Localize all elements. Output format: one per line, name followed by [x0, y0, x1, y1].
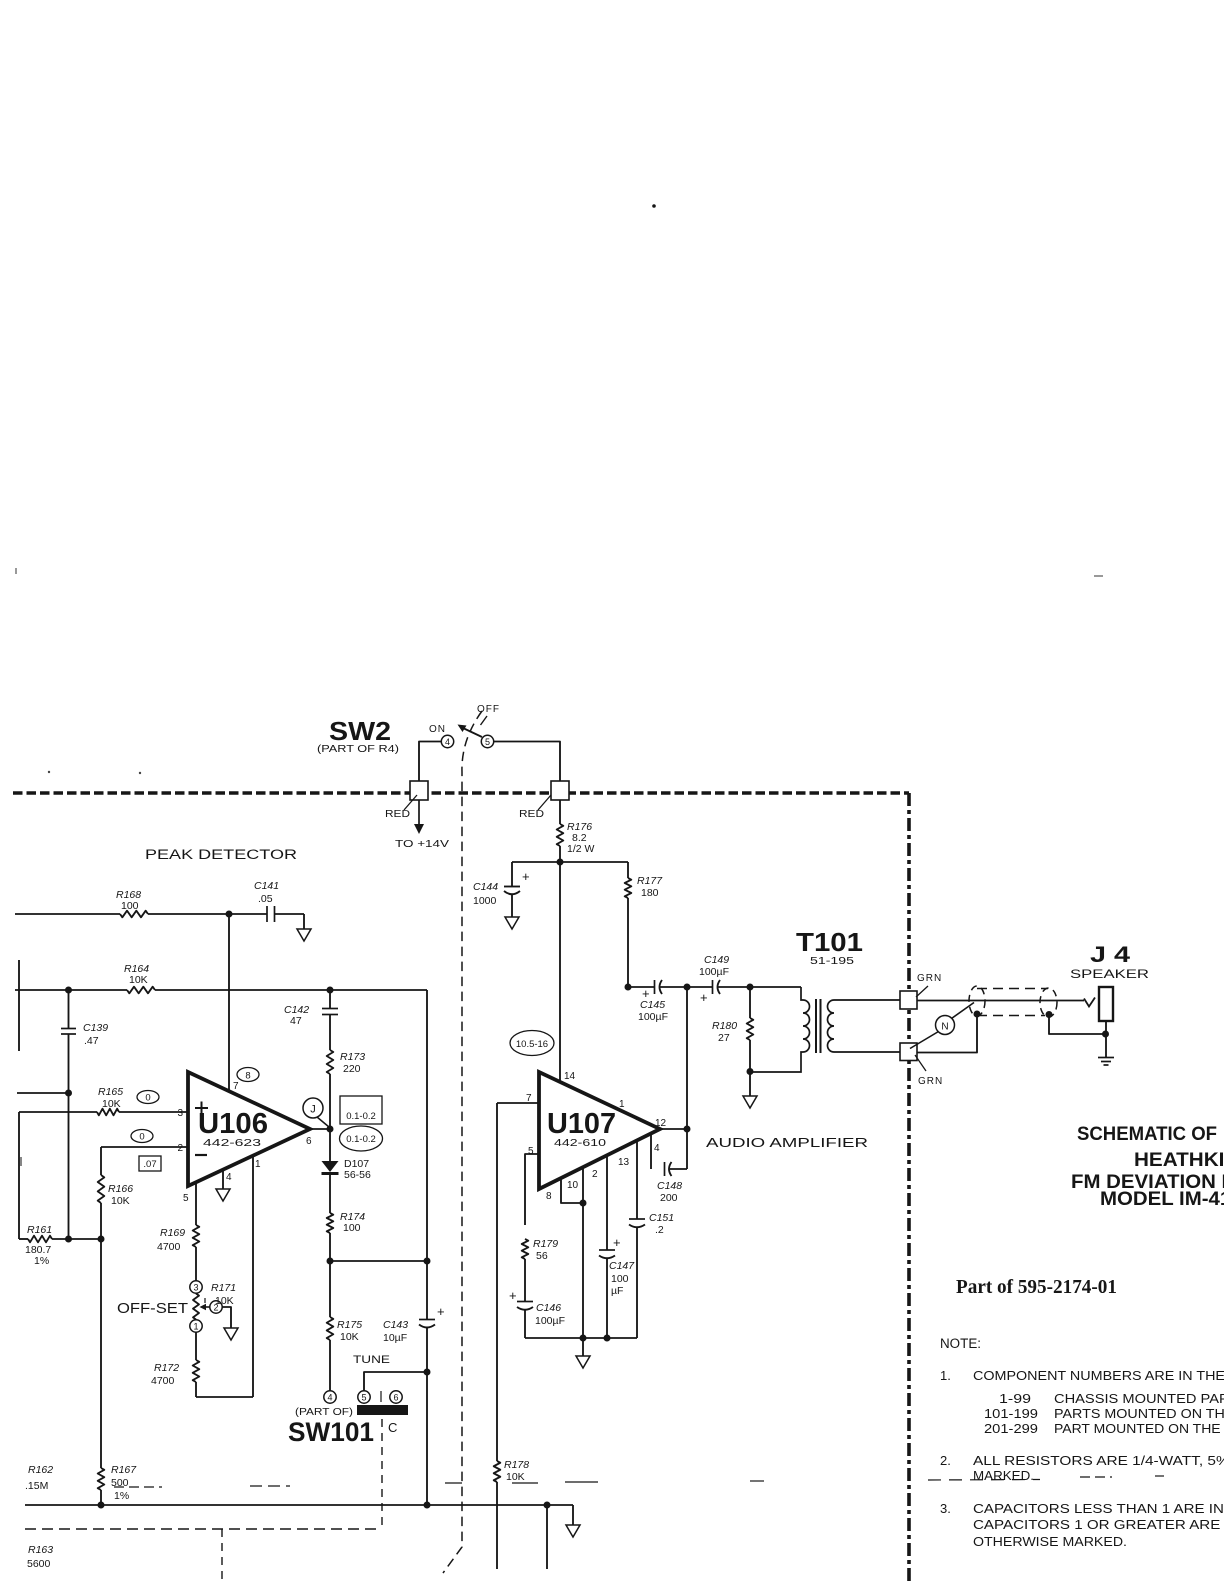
- svg-text:CHASSIS MOUNTED PARTS: CHASSIS MOUNTED PARTS: [1054, 1391, 1224, 1406]
- resistor R165: [19, 1111, 97, 1113]
- svg-text:4700: 4700: [157, 1241, 181, 1253]
- wire rail horizontal: [512, 861, 628, 863]
- svg-text:1%: 1%: [114, 1490, 129, 1502]
- svg-text:J: J: [310, 1104, 316, 1116]
- wire jack sleeve down: [1105, 1021, 1107, 1057]
- svg-text:442-610: 442-610: [554, 1137, 606, 1149]
- wire ground branch down: [546, 1505, 548, 1569]
- svg-text:R180: R180: [712, 1020, 737, 1032]
- switch SW101 bar: [357, 1405, 408, 1415]
- svg-text:13: 13: [618, 1157, 630, 1168]
- svg-text:12: 12: [655, 1118, 667, 1129]
- ground bottom rail: [566, 1525, 580, 1537]
- svg-text:GRN: GRN: [917, 973, 942, 984]
- svg-text:0: 0: [139, 1132, 144, 1143]
- svg-text:.07: .07: [143, 1159, 156, 1170]
- resistor R176: [559, 800, 561, 824]
- wire shield to jack sleeve: [1049, 1015, 1106, 1035]
- wire bottom rail ground stem: [572, 1505, 574, 1525]
- svg-text:4: 4: [445, 737, 450, 747]
- svg-text:1: 1: [255, 1159, 261, 1170]
- wire SW101 C dashed: [381, 1419, 383, 1529]
- svg-text:100µF: 100µF: [535, 1315, 565, 1327]
- wire output to C145 node: [686, 987, 688, 1129]
- svg-text:10µF: 10µF: [383, 1332, 407, 1344]
- wire U106 pin5 down: [195, 1182, 197, 1225]
- svg-text:SW2: SW2: [329, 716, 391, 746]
- svg-text:3.: 3.: [940, 1501, 951, 1516]
- resistor R178: [494, 1461, 501, 1482]
- op-amp U106 plus sign: [195, 1107, 208, 1109]
- svg-text:OFF: OFF: [477, 704, 500, 715]
- svg-text:10K: 10K: [129, 974, 148, 986]
- svg-text:180: 180: [641, 887, 659, 899]
- svg-text:1000: 1000: [473, 895, 497, 907]
- svg-text:56: 56: [536, 1250, 548, 1262]
- connector square RED left: [410, 781, 428, 800]
- capacitor C147: [599, 1249, 615, 1251]
- svg-text:R161: R161: [27, 1224, 52, 1236]
- svg-text:10K: 10K: [340, 1331, 359, 1343]
- node R161/R166 junction: [98, 1236, 105, 1243]
- svg-text:N: N: [941, 1022, 948, 1033]
- resistor R161: [19, 1238, 28, 1240]
- wire U107 pin5: [525, 1154, 539, 1225]
- svg-text:SCHEMATIC OF: SCHEMATIC OF: [1077, 1124, 1217, 1145]
- resistor R167: [98, 1468, 105, 1490]
- node TUNE junction: [424, 1369, 431, 1376]
- svg-text:.2: .2: [655, 1224, 664, 1236]
- svg-text:C147: C147: [609, 1260, 635, 1272]
- wire dashed bottom boundary: [25, 1528, 382, 1530]
- svg-text:Part of 595-2174-01: Part of 595-2174-01: [956, 1276, 1117, 1298]
- wire C139 to R161: [68, 1093, 70, 1239]
- svg-text:C143: C143: [383, 1319, 408, 1331]
- svg-text:10: 10: [567, 1180, 579, 1191]
- svg-text:2: 2: [592, 1169, 598, 1180]
- capacitor C148 loop: [650, 1133, 652, 1169]
- svg-text:100: 100: [121, 900, 139, 912]
- capacitor C143: [419, 1319, 435, 1321]
- svg-text:14: 14: [564, 1071, 576, 1082]
- svg-text:8: 8: [546, 1191, 552, 1202]
- connector square RED right: [551, 781, 569, 800]
- svg-text:4: 4: [654, 1143, 660, 1154]
- callout oval 0 upper: [137, 1091, 159, 1104]
- callout oval 0 lower: [131, 1130, 153, 1143]
- node bottom rail ground branch: [544, 1502, 551, 1509]
- svg-text:CAPACITORS 1 OR GREATER ARE IN: CAPACITORS 1 OR GREATER ARE IN P: [973, 1517, 1224, 1532]
- resistor R168: [15, 913, 120, 915]
- svg-text:ON: ON: [429, 724, 446, 735]
- capacitor C146: [517, 1301, 533, 1303]
- node C145 left junction: [625, 984, 632, 991]
- resistor R169: [193, 1225, 200, 1247]
- svg-text:MARKED.: MARKED.: [973, 1468, 1034, 1483]
- node ground rail pin10: [580, 1335, 587, 1342]
- svg-text:RED: RED: [519, 809, 544, 820]
- svg-text:10.5-16: 10.5-16: [516, 1039, 548, 1050]
- switch SW2 wiper arrow: [464, 729, 482, 738]
- wire TUNE link: [364, 1372, 427, 1391]
- svg-text:U107: U107: [547, 1108, 616, 1140]
- svg-text:GRN: GRN: [918, 1076, 943, 1087]
- svg-text:200: 200: [660, 1192, 678, 1204]
- svg-text:2: 2: [177, 1143, 183, 1154]
- cable shield left ellipse: [969, 986, 985, 1016]
- op-amp U107: [539, 1072, 660, 1189]
- capacitor C142: [329, 990, 331, 1008]
- wire U107 pin7: [497, 1102, 539, 1104]
- svg-text:RED: RED: [385, 809, 410, 820]
- wire right branch vertical: [426, 990, 428, 1319]
- svg-text:1/2 W: 1/2 W: [567, 843, 595, 855]
- svg-text:5600: 5600: [27, 1558, 51, 1570]
- callout circle N: [936, 1016, 955, 1035]
- svg-text:R165: R165: [98, 1086, 123, 1098]
- svg-text:10K: 10K: [506, 1471, 525, 1483]
- label GRN top: [916, 986, 928, 997]
- svg-text:µF: µF: [611, 1285, 623, 1297]
- wire U107 pin13 leg: [636, 1140, 638, 1219]
- svg-text:R172: R172: [154, 1362, 179, 1374]
- capacitor C145: [628, 986, 655, 988]
- svg-text:4: 4: [226, 1172, 232, 1183]
- svg-text:NOTE:: NOTE:: [940, 1336, 981, 1351]
- callout box .07: [139, 1156, 161, 1171]
- svg-text:201-299: 201-299: [984, 1421, 1038, 1436]
- svg-text:1: 1: [619, 1099, 625, 1110]
- svg-text:R169: R169: [160, 1227, 185, 1239]
- diode D107: [329, 1129, 331, 1161]
- wire U106 pin1 down: [252, 1156, 254, 1397]
- node R180 bottom junction: [747, 1068, 754, 1075]
- potentiometer R171 terminal 2: [210, 1301, 222, 1313]
- speck marks: [652, 204, 656, 208]
- svg-text:0.1-0.2: 0.1-0.2: [346, 1134, 376, 1145]
- svg-text:0: 0: [145, 1093, 150, 1104]
- svg-text:R166: R166: [108, 1183, 133, 1195]
- svg-text:R163: R163: [28, 1544, 53, 1556]
- jack J4 tip contact: [1084, 998, 1095, 1007]
- label RED left pointer: [404, 795, 417, 810]
- svg-text:C148: C148: [657, 1180, 682, 1192]
- svg-text:HEATHKIT: HEATHKIT: [1134, 1150, 1224, 1171]
- svg-text:1%: 1%: [34, 1255, 49, 1267]
- wire U107 pin10 leg: [582, 1167, 584, 1338]
- svg-text:27: 27: [718, 1032, 730, 1044]
- svg-text:.47: .47: [84, 1035, 99, 1047]
- switch SW2 contact 5: [481, 735, 493, 747]
- svg-text:220: 220: [343, 1063, 361, 1075]
- svg-text:100µF: 100µF: [699, 966, 729, 978]
- node C149/R180 junction: [747, 984, 754, 991]
- resistor R179: [522, 1239, 529, 1259]
- wire speaker hot: [917, 1000, 1084, 1002]
- ground C144: [505, 917, 519, 929]
- node R174 bottom junction: [327, 1258, 334, 1265]
- resistor R173: [327, 1050, 334, 1074]
- svg-text:C139: C139: [83, 1022, 108, 1034]
- transformer T101 secondary: [828, 1000, 901, 1052]
- ground R180: [743, 1096, 757, 1108]
- svg-text:C151: C151: [649, 1212, 674, 1224]
- node C143 branch junction: [424, 1258, 431, 1265]
- svg-text:+: +: [613, 1235, 621, 1250]
- svg-text:5: 5: [361, 1392, 366, 1402]
- callout oval 10.5-16: [510, 1031, 554, 1056]
- wire U106 pin7 feed: [228, 914, 230, 1091]
- svg-text:100: 100: [343, 1222, 361, 1234]
- svg-text:47: 47: [290, 1015, 302, 1027]
- node U106 output junction: [327, 1126, 334, 1133]
- svg-text:PARTS MOUNTED ON THE CIR: PARTS MOUNTED ON THE CIR: [1054, 1406, 1224, 1421]
- svg-text:10K: 10K: [215, 1295, 234, 1307]
- svg-text:.15M: .15M: [25, 1480, 48, 1492]
- wire circuit-board boundary dashed vertical: [443, 711, 482, 1573]
- wire U107 pin8 stub: [561, 1178, 583, 1203]
- potentiometer R171 terminal 3: [190, 1281, 202, 1293]
- svg-text:1-99: 1-99: [999, 1391, 1031, 1406]
- svg-text:C149: C149: [704, 954, 729, 966]
- node jack sleeve junction: [1102, 1031, 1109, 1038]
- switch SW101 contact 5: [358, 1391, 370, 1403]
- callout circle J: [303, 1098, 323, 1118]
- wire R165 down leg: [18, 1112, 20, 1239]
- svg-text:U106: U106: [198, 1108, 268, 1140]
- capacitor C139: [68, 990, 70, 1028]
- wire arrow TO +14V: [418, 800, 420, 826]
- label RED right pointer: [538, 795, 551, 810]
- jack J4 body: [1099, 987, 1113, 1021]
- svg-text:3: 3: [193, 1282, 198, 1292]
- svg-text:AUDIO AMPLIFIER: AUDIO AMPLIFIER: [706, 1135, 868, 1150]
- ground chassis J4: [1098, 1057, 1114, 1059]
- node C142 top junction: [327, 987, 334, 994]
- op-amp U106: [188, 1072, 310, 1186]
- resistor R172: [195, 1332, 197, 1360]
- svg-text:R167: R167: [111, 1464, 137, 1476]
- wire chassis boundary dashed horizontal: [13, 791, 909, 795]
- node R168/C141 junction: [226, 911, 233, 918]
- resistor R175: [329, 1261, 331, 1317]
- svg-text:R162: R162: [28, 1464, 53, 1476]
- svg-text:56-56: 56-56: [344, 1169, 371, 1181]
- svg-text:R173: R173: [340, 1051, 365, 1063]
- wire U106 output: [310, 1128, 330, 1130]
- potentiometer R171 element: [193, 1294, 199, 1320]
- node +14V rail junction: [557, 859, 564, 866]
- wire U106 pin2: [101, 1146, 188, 1148]
- svg-text:442-623: 442-623: [203, 1137, 261, 1149]
- svg-text:100: 100: [611, 1273, 629, 1285]
- wire ground rail stem: [582, 1338, 584, 1356]
- callout box 0.1-0.2: [340, 1096, 382, 1124]
- wire R180 ground stem: [749, 1072, 751, 1097]
- svg-text:+: +: [700, 990, 708, 1005]
- node shield left: [974, 1011, 981, 1018]
- capacitor C141: [266, 906, 268, 922]
- potentiometer R171 terminal 1: [190, 1320, 202, 1332]
- svg-text:PART MOUNTED ON THE MET: PART MOUNTED ON THE MET: [1054, 1421, 1224, 1436]
- wire secondary bottom: [917, 1014, 977, 1053]
- svg-text:5: 5: [183, 1193, 189, 1204]
- svg-text:C145: C145: [640, 999, 665, 1011]
- svg-text:51-195: 51-195: [810, 956, 855, 967]
- wire R172 to pin1 leg: [196, 1396, 253, 1398]
- switch SW101 contact 4: [324, 1391, 336, 1403]
- node R161/C139 junction: [65, 1236, 72, 1243]
- svg-text:ALL RESISTORS ARE 1/4-WATT, 5%: ALL RESISTORS ARE 1/4-WATT, 5% UNLE: [973, 1453, 1224, 1468]
- svg-text:+: +: [509, 1288, 517, 1303]
- svg-text:R175: R175: [337, 1319, 362, 1331]
- svg-text:C144: C144: [473, 881, 498, 893]
- svg-text:3: 3: [177, 1108, 183, 1119]
- callout oval 0.1-0.2: [340, 1126, 383, 1151]
- svg-text:SPEAKER: SPEAKER: [1070, 967, 1149, 981]
- wire U107 ground rail: [525, 1337, 637, 1339]
- svg-text:R179: R179: [533, 1238, 558, 1250]
- label GRN bottom: [915, 1055, 926, 1071]
- wire contact5 to connector: [494, 742, 560, 782]
- svg-text:100µF: 100µF: [638, 1011, 668, 1023]
- capacitor C144: [511, 862, 513, 886]
- wire U107 pin7 leg: [496, 1103, 498, 1461]
- svg-text:(PART OF R4): (PART OF R4): [317, 743, 399, 755]
- wire U107 output: [660, 1128, 687, 1130]
- svg-text:OFF-SET: OFF-SET: [117, 1300, 188, 1317]
- resistor R164: [15, 989, 127, 991]
- ground U106 pin4: [216, 1189, 230, 1201]
- cable shield right ellipse: [1040, 988, 1057, 1017]
- wire left stub: [18, 960, 20, 1051]
- switch SW2 contact 4: [441, 735, 453, 747]
- svg-text:J 4: J 4: [1090, 942, 1131, 967]
- wire faint dashed trace: [114, 1486, 162, 1488]
- node pin8/pin10 junction: [580, 1200, 587, 1207]
- node U107 output junction: [684, 1126, 691, 1133]
- node ground rail pin2: [604, 1335, 611, 1342]
- cable outline dashed top: [977, 988, 1048, 990]
- node C139 top junction: [65, 987, 72, 994]
- resistor R174: [327, 1213, 334, 1233]
- node bottom rail R167: [98, 1502, 105, 1509]
- svg-text:101-199: 101-199: [984, 1406, 1038, 1421]
- ground C141: [297, 929, 311, 941]
- node C139 bottom junction: [65, 1090, 72, 1097]
- capacitor C151: [629, 1218, 645, 1220]
- svg-text:10K: 10K: [102, 1098, 121, 1110]
- svg-text:R178: R178: [504, 1459, 529, 1471]
- svg-text:+: +: [522, 869, 530, 884]
- svg-text:0.1-0.2: 0.1-0.2: [346, 1111, 376, 1122]
- svg-text:R177: R177: [637, 875, 663, 887]
- svg-text:1: 1: [193, 1321, 198, 1331]
- op-amp U106 minus sign: [195, 1154, 207, 1156]
- svg-text:OTHERWISE MARKED.: OTHERWISE MARKED.: [973, 1534, 1127, 1549]
- svg-text:T101: T101: [796, 927, 863, 957]
- wire wiper to ground: [222, 1307, 231, 1328]
- svg-text:C: C: [388, 1420, 397, 1435]
- svg-text:TUNE: TUNE: [353, 1354, 390, 1366]
- resistor R180: [749, 987, 751, 1018]
- wire U107 pin2 leg: [606, 1155, 608, 1250]
- pin 4 ground stem: [222, 1170, 224, 1189]
- connector square GRN top: [900, 991, 917, 1009]
- node C145/C149 junction: [684, 984, 691, 991]
- svg-text:6: 6: [393, 1392, 398, 1402]
- ground R171 wiper: [224, 1328, 238, 1340]
- svg-text:C146: C146: [536, 1302, 561, 1314]
- callout oval 8: [237, 1068, 259, 1082]
- transformer T101 primary: [750, 986, 801, 988]
- svg-text:7: 7: [233, 1081, 239, 1092]
- svg-text:SW101: SW101: [288, 1417, 374, 1447]
- svg-text:TO +14V: TO +14V: [395, 838, 449, 850]
- svg-text:1.: 1.: [940, 1368, 951, 1383]
- wire R174 to C143 branch: [330, 1260, 427, 1262]
- svg-text:COMPONENT NUMBERS ARE IN THE: COMPONENT NUMBERS ARE IN THE: [973, 1368, 1224, 1383]
- wire chassis boundary dashed vertical: [907, 793, 911, 1584]
- wire U107 pin14 feed: [559, 862, 561, 1082]
- capacitor C149: [687, 986, 713, 988]
- svg-text:8: 8: [245, 1071, 250, 1082]
- wire contact4 to connector: [419, 742, 441, 782]
- svg-text:4700: 4700: [151, 1375, 175, 1387]
- connector square GRN bottom: [900, 1043, 917, 1061]
- svg-text:2.: 2.: [940, 1453, 951, 1468]
- svg-text:C141: C141: [254, 880, 279, 892]
- svg-text:5: 5: [528, 1146, 534, 1157]
- cable outline dashed bottom: [977, 1015, 1045, 1017]
- potentiometer R171 wiper: [203, 1306, 210, 1308]
- wire stub left of C139: [17, 1092, 69, 1094]
- resistor R166: [100, 1147, 102, 1175]
- node bottom rail C143: [424, 1502, 431, 1509]
- wire dashed bottom left drop: [221, 1529, 223, 1584]
- svg-text:+: +: [437, 1304, 445, 1319]
- svg-text:10K: 10K: [111, 1195, 130, 1207]
- svg-text:MODEL IM-4102: MODEL IM-4102: [1100, 1189, 1224, 1210]
- svg-text:.05: .05: [258, 893, 273, 905]
- svg-text:6: 6: [306, 1136, 312, 1147]
- svg-text:4: 4: [327, 1392, 332, 1402]
- svg-text:5: 5: [485, 737, 490, 747]
- resistor R177: [627, 862, 629, 878]
- ground U107 rail: [576, 1356, 590, 1368]
- node shield right: [1046, 1011, 1053, 1018]
- svg-text:CAPACITORS LESS THAN 1 ARE IN: CAPACITORS LESS THAN 1 ARE IN µF: [973, 1501, 1224, 1516]
- svg-text:R171: R171: [211, 1282, 236, 1294]
- switch SW101 contact 6: [390, 1391, 402, 1403]
- wire bottom rail: [25, 1504, 573, 1506]
- transformer T101 core: [815, 999, 817, 1053]
- svg-text:PEAK DETECTOR: PEAK DETECTOR: [145, 847, 297, 862]
